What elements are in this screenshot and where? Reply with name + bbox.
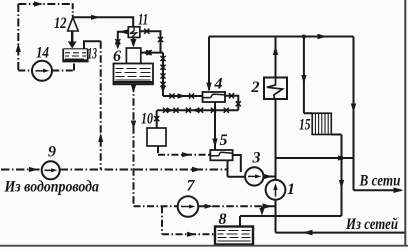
wire: x-marked line into heater 4 (163, 95, 203, 97)
network pump 1 (266, 180, 286, 200)
arrow: steam into column left (142, 50, 151, 55)
boiler 2 (264, 78, 287, 100)
arrow: heater 11 left line down (115, 42, 120, 50)
arrow: heater 11 outlet down into column (130, 39, 136, 48)
cooler 10 (147, 128, 166, 146)
junction dot on mixing line (340, 156, 344, 160)
svg-text:14: 14 (36, 45, 49, 62)
deaerator column 6 (126, 48, 140, 64)
arrow: mixing line right (338, 155, 347, 160)
wire: cooler 10 outlet to heater 5 (158, 146, 210, 155)
svg-text:8: 8 (219, 211, 227, 228)
wire: drop from main line to heater 4 (208, 37, 210, 91)
wire: dash-dot bottom to pump 14 (18, 70, 32, 72)
deaerator tank 6 (114, 64, 154, 85)
wire: heater 11 right line (140, 31, 161, 52)
svg-text:5: 5 (220, 132, 228, 149)
wire: dash-dot loop top (13-14-12 circuit) (18, 3, 72, 5)
arrow: water line right near junction (192, 167, 202, 172)
svg-text:1: 1 (287, 181, 295, 198)
arrow: water line right small (29, 167, 38, 172)
arrow: x-line right into 4 (178, 93, 187, 98)
pump 14 (32, 61, 52, 81)
tank 8 (215, 227, 253, 245)
x marks on steam lines (115, 29, 241, 122)
arrow: left vertical up (16, 43, 21, 52)
wire: radiator return (331, 135, 341, 217)
wire: water supply line (Из водопровода) (1, 169, 228, 171)
wire: tank 13 overflow hook (84, 41, 101, 49)
wire: make-up branch down (261, 206, 263, 213)
wire: line to pump 3 (228, 176, 246, 178)
arrow: x-line bottom right (167, 108, 175, 113)
svg-text:9: 9 (48, 143, 56, 160)
wire: drop to cooler 10 (156, 110, 158, 128)
heater 11 (128, 27, 140, 38)
funnel 12 (68, 17, 79, 31)
wire: deaerator tank 6 down pipe (133, 84, 135, 206)
wire: pump 1 suction drop (275, 199, 277, 232)
arrow: make-up riser up (98, 133, 103, 142)
arrow: Из сетей left (303, 230, 313, 236)
wire: heater 4 right bypass loop (225, 96, 238, 110)
arrow: top dash-dot loop right (34, 1, 43, 6)
svg-text:10: 10 (141, 111, 153, 128)
tank 13 (63, 49, 87, 62)
wire: steam line into deaerator column (142, 52, 164, 54)
wire: x-marked vertical line (161, 53, 164, 96)
arrow: deaerator downpipe upper (131, 85, 136, 94)
arrow: В сети right (394, 187, 404, 193)
arrow: x-line bottom left (192, 108, 200, 113)
svg-text:4: 4 (214, 76, 223, 93)
arrow: funnel line right (91, 15, 100, 20)
wire: pump 7 discharge to pump 1 suction (198, 205, 275, 207)
svg-text:2: 2 (251, 79, 260, 96)
wire: funnel 12 outlet line to heater 11 (73, 17, 133, 27)
radiator 15 (312, 113, 331, 134)
arrow: right vertical down (351, 104, 356, 113)
wire: right supply vertical (353, 37, 355, 191)
arrow: main line right (318, 34, 328, 39)
wire: bottom x-marked line (157, 109, 238, 111)
wire: heater 5 right outlet (233, 155, 241, 172)
wire: dash-dot left vertical (17, 4, 19, 71)
arrow: x-vertical down (160, 86, 165, 94)
svg-text:7: 7 (187, 178, 196, 195)
wire: top main hot-water line (209, 36, 354, 38)
wire: boiler riser lower (275, 99, 277, 180)
wire: return from network (Из сетей) (276, 232, 406, 234)
svg-text:13: 13 (88, 46, 98, 63)
wire: apex stub down to funnel 12 (72, 3, 74, 16)
wire: pump 14 to tank 13 bottom (52, 62, 74, 71)
svg-text:11: 11 (138, 12, 148, 29)
svg-text:Из сетей: Из сетей (345, 216, 398, 233)
wire: branch down to tank 8 (162, 206, 215, 234)
arrow: branch into tank 8 right (187, 232, 196, 237)
svg-text:6: 6 (113, 48, 121, 65)
pump 9 (42, 161, 60, 179)
wire: mixing line (276, 157, 354, 159)
wire: heater 4 to heater 5 (214, 102, 216, 150)
border bottom (0, 245, 408, 247)
wire: heater 5 bottom outlet (227, 160, 229, 177)
arrow: funnel 12 into tank 13 (68, 32, 77, 49)
wire: heater 11 outlet into column 6 (132, 37, 134, 45)
svg-text:3: 3 (252, 150, 261, 167)
svg-text:15: 15 (299, 117, 311, 134)
arrow: boiler riser up (273, 46, 278, 56)
arrow: cooler 10 line right (182, 152, 191, 157)
arrow: into heater 5 (212, 139, 217, 148)
arrow: make-up branch down small (259, 208, 264, 216)
arrow: radiator drop down (301, 75, 306, 84)
arrow: pump 7 discharge small (205, 204, 214, 209)
make-up pump 7 (178, 196, 199, 217)
wire: pump 3 to network pump riser (264, 176, 276, 178)
arrow: pump 3 outlet right (264, 174, 273, 179)
wire: radiator supply drop (304, 37, 312, 114)
svg-text:12: 12 (54, 15, 67, 32)
wire: to network outlet (В сети) (354, 189, 402, 191)
border right (404, 0, 406, 247)
arrow: pump 7 discharge right (263, 204, 273, 210)
heater 5 (210, 150, 232, 160)
svg-text:Из водопровода: Из водопровода (4, 179, 100, 196)
arrow: radiator return down (339, 180, 344, 189)
wire: heater 11 left line down (118, 32, 129, 48)
wire: lower crossover to tank 8 (240, 216, 342, 227)
arrow: deaerator downpipe lower (131, 121, 136, 130)
arrow: heater 11 left line left (119, 29, 128, 34)
wire: to make-up pump 7 (134, 205, 178, 207)
wire: make-up riser to tank 13 (100, 41, 102, 169)
pump 3 (245, 167, 263, 185)
junction dot on main line (302, 35, 306, 39)
heater 4 (203, 92, 226, 102)
svg-text:В сети: В сети (359, 173, 401, 190)
arrow: drop into heater 4 (206, 83, 211, 92)
wire: boiler riser upper (275, 37, 277, 78)
